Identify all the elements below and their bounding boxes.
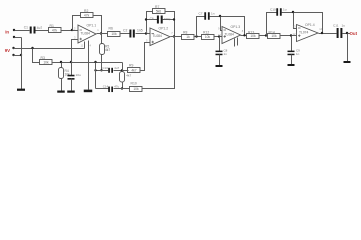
wire stage4 node A up to C10 [267, 13, 277, 36]
op-amp OP1.1 [74, 24, 99, 43]
node sallen-key B (stage3) [218, 35, 220, 37]
resistor R6 [108, 26, 121, 36]
wire EQ row2 up to op2 output [143, 37, 175, 89]
svg-text:10u: 10u [76, 73, 81, 77]
ground symbol under C8 [216, 65, 223, 67]
svg-text:C7: C7 [199, 12, 203, 16]
node 9V minus terminal [12, 54, 14, 56]
wire stage4 node B down to C9 [291, 36, 293, 52]
node Out terminal [346, 32, 348, 34]
node sallen-key A (stage3) [195, 35, 197, 37]
wire bias rail down to R11 [122, 63, 124, 72]
wire node A up to C7 [197, 17, 205, 37]
svg-text:Out: Out [350, 31, 358, 36]
capacitor C7 (stage3 bootstrap) [204, 12, 209, 20]
svg-text:47k: 47k [84, 14, 90, 18]
svg-text:TL074: TL074 [299, 31, 309, 35]
wire C5 to ground [71, 79, 73, 91]
wire Out sleeve to ground [347, 34, 349, 62]
svg-text:1n5: 1n5 [137, 29, 143, 33]
node op2 output junction [173, 35, 175, 37]
svg-text:1u: 1u [283, 8, 287, 12]
wire R6 to C2 [121, 33, 130, 35]
node sallen-key A (stage4) [265, 34, 267, 36]
wire op3 power stub V- [237, 38, 239, 46]
svg-text:OP1.4: OP1.4 [305, 23, 315, 27]
capacitor C1 [30, 27, 36, 34]
node bias rail at C5 / op1 +input [70, 61, 72, 63]
svg-text:4k7: 4k7 [105, 48, 110, 52]
wire op1 output to R5 [97, 33, 109, 35]
wire R14 to op4 +input [281, 35, 297, 37]
node EQ row1 at R5v [100, 69, 102, 71]
capacitor C6 (op2 feedback) [157, 16, 163, 24]
wire op2 +input down to EQ row1 [141, 43, 151, 71]
svg-text:R1: R1 [50, 24, 54, 28]
wire C13 to R9 [114, 70, 129, 72]
wire R12 to op3 +input [214, 36, 223, 38]
node 9V rail junction to bias divider [31, 47, 33, 49]
svg-text:47u: 47u [114, 84, 119, 88]
resistor R4 (bias divider bottom) [59, 68, 71, 79]
wire R2 to op1 output [94, 16, 102, 34]
svg-text:1k: 1k [186, 35, 190, 39]
svg-text:R3: R3 [41, 56, 45, 60]
svg-text:1u: 1u [342, 24, 346, 28]
wire 9V minus to ground rail [14, 55, 22, 57]
resistor R9 (EQ row1) [128, 64, 141, 73]
wire R11 to EQ row2 [122, 82, 124, 89]
wire op2 output to R8 [171, 36, 182, 38]
wire C6 right lead [163, 19, 175, 21]
ground symbol under C5 [67, 91, 75, 93]
resistor R8 [182, 30, 195, 39]
svg-text:10k: 10k [111, 32, 117, 36]
svg-text:4k7: 4k7 [131, 69, 136, 73]
node bias rail at R4 [60, 61, 62, 63]
svg-text:10k: 10k [271, 34, 277, 38]
wire C7 to op3 output [210, 17, 245, 36]
capacitor C13 (EQ row1) [108, 68, 113, 73]
svg-text:1n: 1n [211, 12, 215, 16]
svg-text:C10: C10 [270, 8, 276, 12]
capacitor C5 (bias decoupling) [68, 75, 75, 80]
svg-text:10k: 10k [133, 87, 139, 91]
capacitor C11 (output coupling) [337, 28, 343, 38]
svg-text:C1: C1 [24, 26, 28, 30]
wire feedback up from inverting node to R2 [73, 16, 81, 31]
svg-text:1n: 1n [296, 52, 300, 56]
wire C8 to ground [219, 55, 221, 66]
wire op1 V- power stub to ground [88, 41, 90, 90]
svg-text:C2: C2 [123, 28, 127, 32]
node 9V plus terminal [12, 47, 14, 49]
resistor R3 (bias divider top) [40, 56, 53, 65]
wire 9V down to R3 [33, 49, 41, 63]
svg-text:10k: 10k [205, 35, 211, 39]
wire C9 to ground [291, 55, 293, 65]
ground symbol at input rail [17, 89, 25, 91]
svg-text:TL084: TL084 [81, 32, 91, 36]
wire R1 to op-amp U1 inverting input [62, 30, 79, 32]
node C6 left junction [145, 18, 147, 20]
svg-text:OP1.2: OP1.2 [159, 27, 169, 31]
node sallen-key B (stage4) [290, 34, 292, 36]
wire In tip to C1 [15, 30, 30, 32]
wire R13 to R14 [260, 35, 269, 37]
svg-text:5k6: 5k6 [156, 9, 161, 13]
ground symbol under C9 [288, 64, 295, 66]
resistor R5 (op1 output to Vref) [100, 44, 111, 55]
svg-text:R9: R9 [129, 64, 133, 68]
wire In sleeve to ground rail [15, 37, 22, 39]
wire bias rail down to R4 [61, 63, 63, 68]
svg-text:10k: 10k [250, 34, 256, 38]
node op1 inverting input junction [71, 29, 73, 31]
node bias rail at EQ left column [94, 61, 96, 63]
node op4 inverting feedback tap [292, 11, 294, 13]
svg-text:R6: R6 [109, 26, 113, 30]
svg-text:TL084: TL084 [225, 33, 235, 37]
op-amp OP1.3 [218, 25, 244, 43]
ground symbol under op1 power stub [84, 90, 93, 93]
wire R8 to R12 [195, 36, 203, 38]
resistor R12 [202, 30, 215, 39]
capacitor C8 (stage3 shunt) [216, 51, 223, 56]
svg-text:In: In [5, 30, 9, 35]
wire R5v down to EQ row1 [101, 55, 103, 71]
capacitor C10 (stage4 bootstrap) [276, 8, 281, 16]
wire op1 +input down to Vref rail [72, 40, 79, 63]
svg-text:OP1.1: OP1.1 [87, 24, 97, 28]
svg-text:47k: 47k [52, 28, 58, 32]
svg-text:C14: C14 [103, 84, 109, 88]
wire op1 output down to R5v [101, 34, 103, 45]
node ground rail junction [20, 54, 22, 56]
node op4 output junction [321, 32, 323, 34]
svg-text:C6: C6 [150, 17, 154, 21]
resistor R11 (EQ vertical) [120, 72, 125, 83]
node EQ row2 at R11 [121, 87, 123, 89]
node In tip terminal [13, 29, 15, 31]
svg-text:C13: C13 [102, 66, 108, 70]
svg-text:R12: R12 [203, 30, 209, 34]
wire C10 to op4 output [282, 13, 323, 34]
wire feedback down to op3 inverting input [221, 17, 223, 31]
wire op4 output to C11 [319, 33, 337, 35]
wire bias rail down to C5 [71, 63, 73, 76]
node EQ left column row1 tap [94, 69, 96, 71]
wire C14 to R10 [114, 88, 131, 90]
ground symbol at output [344, 61, 351, 63]
wire Vref bias rail [53, 62, 123, 64]
ground symbol under R4 [57, 91, 65, 93]
op-amp OP1.4 [293, 23, 323, 41]
wire ground rail vertical [21, 38, 23, 90]
resistor R14 [268, 30, 281, 38]
wire 9V rail [14, 48, 85, 50]
wire C2 to op2 inverting input [136, 33, 151, 35]
wire op2 inv node up to feedback R7 [147, 12, 153, 34]
node op1 output junction [100, 32, 102, 34]
svg-text:R2: R2 [84, 9, 88, 13]
wire EQ row1 left [96, 70, 109, 72]
svg-text:9V: 9V [5, 48, 10, 53]
wire EQ left column [95, 63, 97, 89]
node op2 inverting input junction [145, 32, 147, 34]
capacitor C9 (stage4 shunt) [288, 51, 295, 56]
node EQ row1 to R11 [121, 69, 123, 71]
svg-text:R8: R8 [183, 30, 187, 34]
svg-text:4u7: 4u7 [37, 26, 43, 30]
capacitor C2 [129, 30, 134, 38]
node op3 inverting feedback tap [219, 15, 221, 17]
wire node B down to C8 [219, 37, 221, 52]
wire R7 to op2 output [166, 12, 175, 37]
svg-text:10k: 10k [43, 60, 49, 64]
svg-text:4u7: 4u7 [114, 66, 119, 70]
wire C11 to Out [343, 33, 351, 35]
wire C6 left lead [147, 19, 158, 21]
wire EQ row2 left [96, 88, 109, 90]
resistor R13 [247, 30, 260, 38]
op-amp OP1.2 [146, 27, 173, 46]
resistor R7 (op2 feedback) [153, 5, 166, 14]
svg-text:1n: 1n [224, 52, 228, 56]
node C6 right junction [173, 18, 175, 20]
wire R4 to ground [61, 79, 63, 91]
wire 9V to op1 V+ power stub [84, 42, 86, 49]
svg-text:4k7: 4k7 [126, 73, 131, 77]
node op3 output junction [243, 34, 245, 36]
wire feedback down to op4 inverting input [294, 13, 297, 29]
svg-text:C11: C11 [333, 24, 339, 28]
resistor R10 (EQ row2) [130, 82, 143, 92]
svg-text:R7: R7 [155, 5, 159, 9]
resistor R2 (op1 feedback) [81, 9, 94, 18]
wire op3 output to R13 [241, 35, 248, 37]
node In sleeve terminal [13, 36, 15, 38]
capacitor C14 (EQ row2) [108, 87, 113, 93]
wire op3 power stub V+ [234, 39, 236, 47]
resistor R1 [49, 24, 62, 33]
svg-text:TL084: TL084 [153, 34, 163, 38]
wire C1 to R1 [36, 30, 49, 32]
svg-text:R10: R10 [131, 82, 137, 86]
svg-text:OP1.3: OP1.3 [231, 25, 241, 29]
